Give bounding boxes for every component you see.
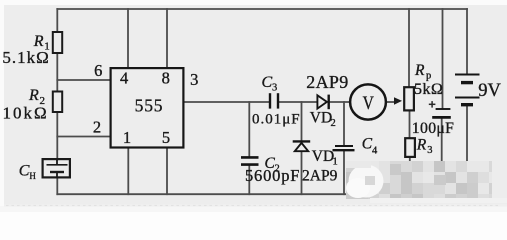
svg-text:H: H bbox=[29, 171, 36, 181]
capacitor C3 plates bbox=[270, 93, 278, 108]
wire: CH bottom to bottom rail bbox=[56, 178, 58, 195]
wire: VD1 branch down to its cathode bar bbox=[301, 102, 303, 141]
wire: C4 to bottom rail bbox=[343, 151, 345, 194]
svg-text:8: 8 bbox=[162, 68, 170, 87]
wire: Rp to R3 bbox=[409, 111, 411, 139]
wire: R3 to bottom rail bbox=[409, 157, 411, 194]
resistor R3 box bbox=[405, 138, 415, 157]
wire: pin 8 drop bbox=[166, 9, 168, 68]
svg-text:V: V bbox=[363, 93, 375, 114]
svg-text:2AP9: 2AP9 bbox=[306, 72, 348, 92]
wire: C3 to VD2 bbox=[279, 101, 316, 103]
svg-text:5: 5 bbox=[162, 128, 170, 147]
wire: voltmeter to wiper arrow bbox=[386, 101, 396, 103]
wire: top supply rail bbox=[57, 8, 467, 10]
wire: bottom ground rail bbox=[57, 193, 467, 195]
wire: C4 branch down bbox=[343, 102, 345, 145]
wire: battery rail top bbox=[466, 9, 468, 74]
wire: battery rail bottom bbox=[466, 106, 468, 195]
voltmeter V circle bbox=[350, 84, 386, 119]
svg-text:5kΩ: 5kΩ bbox=[414, 81, 443, 98]
electrolytic capacitor 100uF plates bbox=[432, 109, 451, 117]
svg-text:R: R bbox=[414, 62, 425, 79]
svg-text:R: R bbox=[416, 137, 427, 154]
svg-text:1: 1 bbox=[123, 128, 131, 147]
svg-text:VD: VD bbox=[310, 110, 332, 127]
wire: C2 to bottom rail bbox=[248, 166, 250, 195]
svg-text:2: 2 bbox=[93, 117, 101, 136]
wiper arrow into Rp bbox=[394, 97, 402, 104]
wire: pin 2 horizontal bbox=[57, 136, 110, 138]
svg-text:2: 2 bbox=[331, 118, 336, 129]
svg-text:555: 555 bbox=[135, 96, 164, 116]
diode VD2 (pointing right) bbox=[317, 95, 328, 110]
svg-text:3: 3 bbox=[272, 82, 277, 93]
battery 9V plates bbox=[455, 75, 480, 105]
resistor R1 bbox=[53, 32, 62, 53]
wire: pin 6 horizontal bbox=[57, 79, 110, 81]
svg-text:100μF: 100μF bbox=[412, 120, 454, 137]
wire: pin 1 drop bbox=[127, 149, 129, 195]
capacitor C4 plates bbox=[333, 146, 355, 150]
svg-text:6: 6 bbox=[94, 61, 102, 80]
wire: pin 5 drop bbox=[166, 149, 168, 195]
svg-text:p: p bbox=[426, 70, 431, 81]
svg-text:3: 3 bbox=[190, 70, 198, 89]
svg-text:4: 4 bbox=[372, 146, 378, 157]
svg-text:1: 1 bbox=[333, 156, 338, 167]
svg-text:0.01μF: 0.01μF bbox=[252, 111, 301, 127]
wire: VD1 anode to bottom rail bbox=[301, 152, 303, 195]
wire: left rail R1 to R2 through pin6 node bbox=[56, 54, 58, 91]
svg-text:9V: 9V bbox=[478, 81, 501, 101]
svg-text:3: 3 bbox=[427, 145, 432, 156]
IC 555 box bbox=[111, 68, 184, 147]
watermark mosaic bbox=[346, 161, 507, 203]
svg-text:R: R bbox=[28, 87, 39, 104]
wire: 100uF to bottom rail bbox=[441, 119, 443, 195]
wire: C2 branch down bbox=[248, 102, 250, 156]
diode VD1 (cathode bar up, triangle pointing up) bbox=[293, 141, 311, 151]
wire: 100uF rail top bbox=[442, 9, 444, 108]
svg-text:2AP9: 2AP9 bbox=[302, 168, 338, 185]
wire: VD2 cathode to voltmeter bbox=[330, 101, 351, 103]
potentiometer Rp box bbox=[404, 87, 414, 110]
svg-text:C: C bbox=[19, 162, 30, 179]
wire: pin 3 output to C3 bbox=[185, 101, 269, 103]
wire: left rail R2 to CH through pin2 node bbox=[56, 113, 58, 160]
capacitor C2 plates bbox=[241, 157, 259, 164]
svg-text:10kΩ: 10kΩ bbox=[3, 103, 49, 122]
svg-text:5600pF: 5600pF bbox=[245, 166, 300, 185]
plus sign of 100uF bbox=[429, 101, 436, 108]
wire: left rail top segment into R1 bbox=[56, 9, 58, 32]
svg-text:C: C bbox=[262, 74, 273, 91]
svg-text:4: 4 bbox=[120, 68, 128, 87]
wire: pin 4 drop bbox=[127, 9, 129, 68]
wire: Rp rail top bbox=[408, 9, 410, 87]
svg-text:VD: VD bbox=[312, 148, 334, 165]
resistor R2 bbox=[53, 92, 62, 113]
svg-text:5.1kΩ: 5.1kΩ bbox=[2, 48, 49, 67]
humidity capacitor CH box bbox=[43, 159, 70, 177]
